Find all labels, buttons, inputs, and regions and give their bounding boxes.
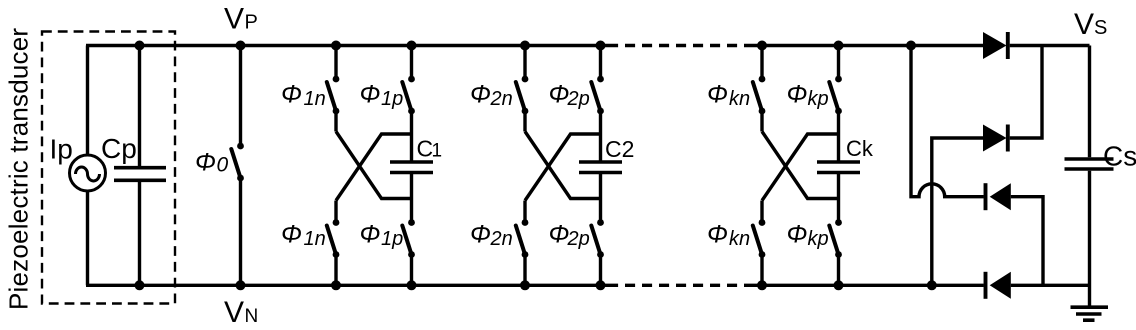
svg-text:Φ: Φ — [281, 80, 302, 108]
capacitor Cp plates — [114, 168, 166, 181]
svg-text:P: P — [245, 12, 258, 34]
wire bottom rail dashed section — [608, 284, 754, 287]
stage 2 right branch wires — [599, 46, 602, 286]
switch phi1n bottom — [327, 219, 340, 258]
switch phi0 — [231, 143, 244, 182]
wire from VP rail down to diode D3 row with hop over crossing wire — [911, 46, 984, 197]
wire top rail dashed section — [608, 44, 754, 47]
diode D4 (ground to VN) — [986, 272, 1011, 299]
stage 2 left branch wires — [523, 46, 526, 286]
current source Ip circle — [70, 155, 106, 191]
svg-text:kn: kn — [729, 228, 750, 250]
svg-text:1: 1 — [432, 141, 443, 162]
svg-text:1p: 1p — [381, 228, 403, 250]
wire diode D3 anode down to ground row — [1011, 197, 1043, 286]
svg-text:Piezoelectric transducer: Piezoelectric transducer — [4, 28, 34, 310]
svg-text:Φ: Φ — [549, 80, 570, 108]
svg-text:Cp: Cp — [101, 133, 137, 164]
ground symbol — [1071, 307, 1109, 320]
current source sine symbol — [76, 167, 100, 181]
switch phikn top — [753, 76, 766, 115]
switch phi1n top — [327, 76, 340, 115]
junction dots bottom rail — [135, 280, 145, 290]
diode D3 (ground to VP) — [986, 183, 1011, 210]
svg-text:Φ: Φ — [707, 80, 728, 108]
svg-text:2n: 2n — [490, 228, 513, 250]
stage k cross-coupling wires — [762, 132, 839, 201]
svg-text:1n: 1n — [304, 88, 326, 110]
wire diode D2 cathode up to Vs rail — [1010, 46, 1042, 139]
svg-text:Φ: Φ — [787, 80, 808, 108]
svg-text:Φ: Φ — [787, 220, 808, 248]
svg-text:Φ: Φ — [195, 149, 216, 177]
capacitor Cs plates — [1065, 159, 1114, 169]
svg-text:V: V — [224, 296, 244, 329]
svg-text:kn: kn — [729, 88, 750, 110]
svg-text:Φ: Φ — [281, 220, 302, 248]
wire from VN rail up to diode D2 row — [932, 138, 983, 285]
diode D1 (VP to VS) — [983, 32, 1008, 59]
capacitor Cp vertical wires — [138, 46, 141, 286]
wire top rail (after D1 to Vs corner) — [1010, 44, 1090, 47]
switch phi2p bottom — [591, 219, 604, 258]
svg-text:Cs: Cs — [1103, 141, 1136, 172]
wire bottom rail VN (solid left part) — [86, 284, 608, 287]
svg-text:N: N — [245, 306, 259, 327]
switch phikn bottom — [753, 219, 766, 258]
svg-text:Φ: Φ — [707, 220, 728, 248]
svg-text:Φ: Φ — [549, 220, 570, 248]
svg-text:V: V — [224, 3, 244, 36]
svg-text:S: S — [1094, 17, 1107, 39]
stage 1 left branch wires — [334, 46, 337, 286]
switch phi2n top — [516, 76, 529, 115]
capacitor C2 plates — [579, 162, 622, 173]
wire Vs column to capacitor Cs — [1088, 46, 1091, 158]
svg-text:Ck: Ck — [846, 136, 874, 161]
svg-text:2n: 2n — [490, 88, 513, 110]
wire capacitor Cs to ground — [1088, 171, 1091, 307]
svg-text:C2: C2 — [605, 136, 634, 162]
svg-text:kp: kp — [808, 228, 829, 250]
wire current source branch — [86, 46, 89, 286]
switch phi2p top — [591, 76, 604, 115]
svg-text:kp: kp — [808, 88, 829, 110]
svg-text:Φ: Φ — [360, 220, 381, 248]
wire top rail VP (solid left part) — [86, 44, 608, 47]
svg-text:V: V — [1074, 8, 1094, 41]
stage 1 cross-coupling wires — [336, 132, 412, 201]
transducer dashed enclosure — [42, 32, 175, 304]
wire switch phi0 branch — [239, 46, 242, 286]
switch phi2n bottom — [516, 219, 529, 258]
capacitor Ck plates — [817, 162, 860, 173]
stage k left branch wires — [760, 46, 763, 286]
svg-text:1n: 1n — [304, 228, 326, 250]
switch phikp top — [829, 76, 842, 115]
svg-text:2p: 2p — [567, 88, 590, 110]
svg-text:Φ: Φ — [360, 80, 381, 108]
switch phi1p top — [402, 76, 415, 115]
svg-text:Φ: Φ — [470, 220, 491, 248]
svg-text:Φ: Φ — [470, 80, 491, 108]
svg-text:1p: 1p — [381, 88, 403, 110]
wire bottom rail (solid right part to diode D4) — [754, 284, 984, 287]
junction dots top rail — [135, 41, 145, 51]
stage 1 right branch wires — [410, 46, 413, 286]
capacitor C1 plates — [390, 162, 433, 173]
stage 2 cross-coupling wires — [525, 132, 601, 201]
wire top rail (solid right part to diode D1) — [754, 44, 983, 47]
switch phikp bottom — [829, 219, 842, 258]
diode D2 (VN to VS) — [983, 125, 1008, 152]
svg-text:0: 0 — [217, 154, 229, 177]
wire bottom rail (after D4 to ground corner) — [1011, 284, 1090, 287]
switch phi1p bottom — [402, 219, 415, 258]
stage k right branch wires — [837, 46, 840, 286]
svg-text:Ip: Ip — [50, 134, 73, 165]
svg-text:2p: 2p — [567, 228, 590, 250]
